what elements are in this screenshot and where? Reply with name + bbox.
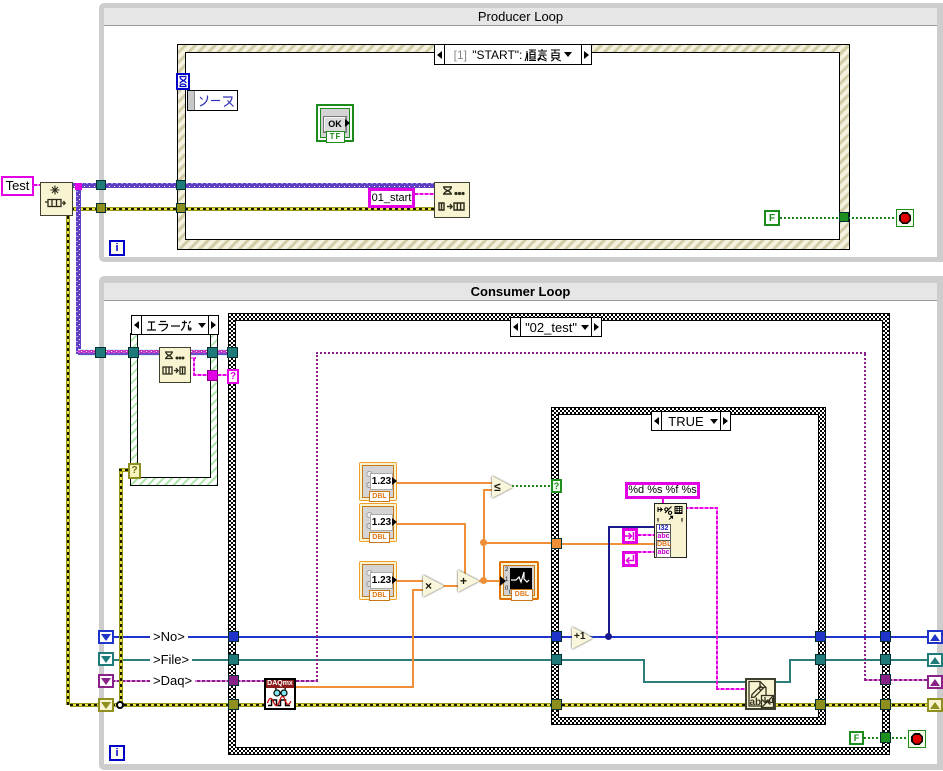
svg-text:ab: ab [750,697,762,708]
